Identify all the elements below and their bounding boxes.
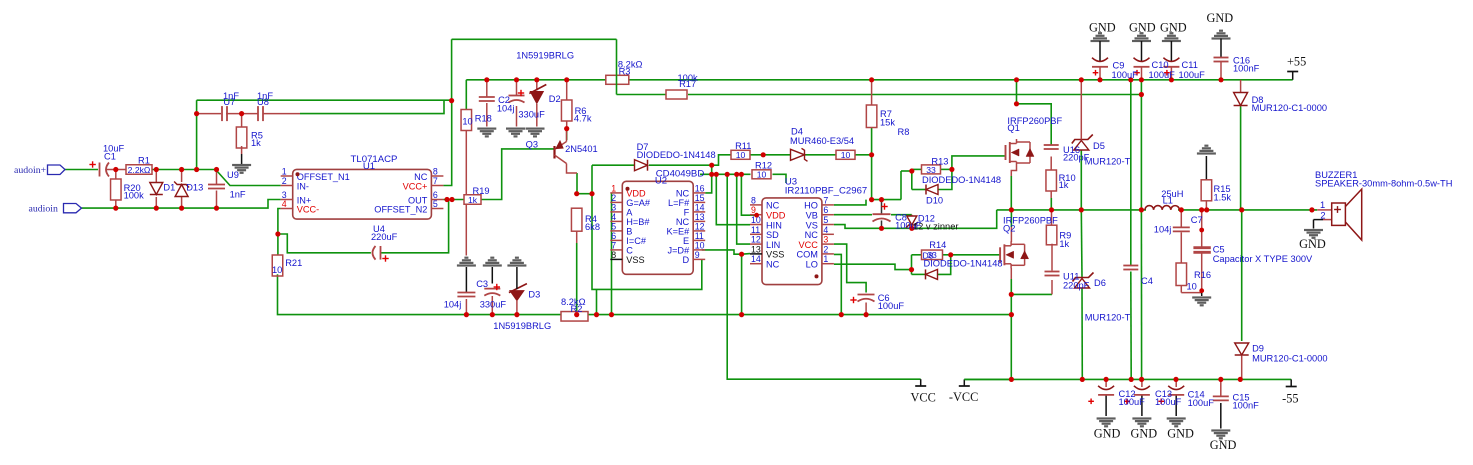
svg-text:C11: C11	[1182, 60, 1198, 70]
svg-text:LO: LO	[806, 260, 818, 270]
svg-text:3: 3	[611, 202, 616, 212]
svg-text:R3: R3	[619, 67, 631, 77]
svg-text:330uF: 330uF	[518, 109, 545, 119]
svg-text:220uF: 220uF	[371, 232, 398, 242]
svg-text:2.2kΩ: 2.2kΩ	[128, 165, 151, 175]
svg-text:VCC: VCC	[911, 391, 936, 405]
svg-text:D6: D6	[1094, 278, 1106, 288]
svg-text:VCC+: VCC+	[403, 181, 428, 191]
svg-text:GND: GND	[1129, 21, 1156, 35]
svg-text:1N5919BRLG: 1N5919BRLG	[493, 321, 551, 331]
svg-text:NC: NC	[805, 230, 819, 240]
svg-text:104j: 104j	[444, 300, 462, 310]
svg-text:IR2110PBF_C2967: IR2110PBF_C2967	[785, 186, 868, 197]
svg-text:15: 15	[695, 193, 705, 203]
svg-text:J=D#: J=D#	[667, 246, 690, 256]
svg-text:13: 13	[695, 212, 705, 222]
svg-text:4.7k: 4.7k	[574, 113, 592, 123]
svg-text:VSS: VSS	[766, 250, 784, 260]
svg-text:F: F	[684, 208, 690, 218]
svg-text:R2: R2	[571, 304, 583, 314]
svg-text:14: 14	[695, 202, 705, 212]
svg-text:C10: C10	[1152, 60, 1169, 70]
svg-text:2: 2	[282, 176, 287, 186]
svg-text:DIODEDO-1N4148: DIODEDO-1N4148	[637, 150, 716, 160]
svg-text:D13: D13	[186, 183, 203, 193]
svg-text:1k: 1k	[1059, 239, 1069, 249]
svg-text:10: 10	[462, 117, 472, 127]
svg-text:D: D	[683, 255, 690, 265]
svg-text:R13: R13	[931, 156, 948, 166]
svg-text:R19: R19	[473, 186, 490, 196]
svg-text:U8: U8	[257, 97, 269, 107]
svg-text:MUR120-C1-0000: MUR120-C1-0000	[1252, 103, 1327, 113]
svg-text:8: 8	[433, 167, 438, 177]
svg-text:104j: 104j	[497, 103, 515, 113]
svg-text:11: 11	[751, 225, 760, 235]
svg-text:8: 8	[611, 250, 616, 260]
svg-text:audoin+: audoin+	[14, 165, 47, 176]
svg-text:NC: NC	[766, 260, 780, 270]
svg-text:16: 16	[695, 183, 705, 193]
svg-text:D3: D3	[528, 290, 540, 300]
svg-text:MUR120-T: MUR120-T	[1085, 156, 1131, 166]
svg-text:100uF: 100uF	[1149, 70, 1176, 80]
svg-text:C5: C5	[1213, 245, 1225, 255]
svg-text:HO: HO	[804, 201, 818, 211]
svg-text:100uF: 100uF	[878, 301, 905, 311]
svg-text:1.5k: 1.5k	[1214, 193, 1232, 203]
svg-text:D1: D1	[163, 183, 175, 193]
svg-text:15k: 15k	[880, 118, 895, 128]
svg-text:12: 12	[751, 235, 761, 245]
svg-text:1k: 1k	[468, 195, 478, 205]
svg-text:G=A#: G=A#	[626, 198, 651, 208]
svg-text:DIODEDO-1N4148: DIODEDO-1N4148	[922, 175, 1001, 185]
svg-text:R12: R12	[755, 161, 772, 171]
svg-text:GND: GND	[1167, 427, 1194, 441]
svg-text:1k: 1k	[251, 138, 261, 148]
svg-text:A: A	[626, 208, 633, 218]
svg-text:R16: R16	[1194, 270, 1211, 280]
svg-text:7: 7	[611, 240, 616, 250]
svg-text:C9: C9	[1113, 61, 1125, 71]
svg-text:100uF: 100uF	[1155, 397, 1182, 407]
svg-text:-55: -55	[1282, 392, 1298, 406]
svg-text:MUR120-T: MUR120-T	[1085, 313, 1131, 323]
svg-text:100uF: 100uF	[1119, 397, 1146, 407]
svg-text:100uF: 100uF	[1188, 398, 1215, 408]
svg-text:Q3: Q3	[526, 140, 538, 150]
svg-text:2: 2	[823, 244, 828, 254]
svg-text:NC: NC	[676, 189, 690, 199]
svg-text:MUR460-E3/54: MUR460-E3/54	[790, 136, 854, 146]
svg-text:1: 1	[823, 254, 828, 264]
svg-text:4: 4	[823, 225, 828, 235]
svg-text:HIN: HIN	[766, 220, 782, 230]
svg-text:U2: U2	[655, 176, 667, 187]
svg-text:Capacitor X TYPE 300V: Capacitor X TYPE 300V	[1213, 254, 1313, 264]
svg-text:R18: R18	[475, 114, 492, 124]
svg-text:C3: C3	[476, 279, 488, 289]
svg-text:H=B#: H=B#	[626, 217, 650, 227]
svg-text:C4: C4	[1141, 276, 1153, 286]
svg-text:R21: R21	[285, 258, 302, 268]
svg-text:6: 6	[611, 231, 616, 241]
svg-text:E: E	[683, 236, 689, 246]
svg-text:1: 1	[1320, 200, 1325, 210]
svg-text:DIODEDO-1N4148: DIODEDO-1N4148	[924, 259, 1003, 269]
svg-text:2: 2	[611, 193, 616, 203]
svg-text:14: 14	[751, 254, 761, 264]
svg-text:D10: D10	[926, 196, 943, 206]
svg-text:VB: VB	[806, 211, 818, 221]
svg-text:OFFSET_N1: OFFSET_N1	[297, 172, 350, 182]
svg-text:U9: U9	[227, 170, 239, 180]
svg-text:330uF: 330uF	[480, 300, 507, 310]
svg-text:audioin: audioin	[29, 204, 58, 215]
svg-text:R8: R8	[898, 127, 910, 137]
svg-text:VSS: VSS	[626, 255, 644, 265]
svg-text:7: 7	[823, 195, 828, 205]
svg-text:2N5401: 2N5401	[565, 144, 598, 154]
svg-text:U7: U7	[223, 97, 235, 107]
svg-text:B: B	[626, 227, 632, 237]
svg-text:5: 5	[433, 199, 438, 209]
svg-text:OFFSET_N2: OFFSET_N2	[374, 204, 427, 214]
svg-text:10: 10	[272, 265, 282, 275]
svg-text:1: 1	[611, 183, 616, 193]
svg-text:GND: GND	[1089, 21, 1116, 35]
svg-text:R17: R17	[679, 79, 696, 89]
svg-text:1N5919BRLG: 1N5919BRLG	[516, 51, 574, 61]
svg-text:NC: NC	[766, 201, 780, 211]
svg-text:6: 6	[823, 205, 828, 215]
svg-text:5: 5	[611, 221, 616, 231]
svg-text:NC: NC	[414, 172, 428, 182]
svg-text:10: 10	[736, 150, 746, 160]
svg-text:11: 11	[695, 231, 704, 241]
svg-text:4: 4	[282, 199, 287, 209]
svg-text:I=C#: I=C#	[626, 236, 647, 246]
svg-text:GND: GND	[1160, 21, 1187, 35]
svg-text:9: 9	[695, 250, 700, 260]
svg-text:13: 13	[751, 244, 761, 254]
svg-text:12: 12	[695, 221, 705, 231]
svg-text:D9: D9	[1252, 344, 1264, 354]
svg-text:7: 7	[433, 176, 438, 186]
svg-text:MUR120-C1-0000: MUR120-C1-0000	[1252, 353, 1327, 363]
svg-text:5: 5	[823, 215, 828, 225]
svg-text:100k: 100k	[124, 191, 145, 201]
svg-text:C7: C7	[1191, 215, 1203, 225]
svg-text:10: 10	[1187, 282, 1197, 292]
svg-text:GND: GND	[1094, 427, 1121, 441]
svg-text:NC: NC	[676, 217, 690, 227]
svg-text:D5: D5	[1093, 141, 1105, 151]
svg-text:Q2: Q2	[1003, 224, 1015, 234]
svg-text:1: 1	[282, 167, 287, 177]
svg-text:VS: VS	[806, 220, 818, 230]
svg-text:8: 8	[751, 195, 756, 205]
svg-text:COM: COM	[796, 250, 817, 260]
svg-text:100nF: 100nF	[1233, 64, 1260, 74]
svg-text:VDD: VDD	[766, 211, 786, 221]
svg-text:GND: GND	[1299, 237, 1326, 251]
svg-text:1k: 1k	[1059, 180, 1069, 190]
svg-text:D4: D4	[791, 127, 803, 137]
svg-text:L1: L1	[1163, 196, 1173, 206]
svg-text:SPEAKER-30mm-8ohm-0.5w-TH: SPEAKER-30mm-8ohm-0.5w-TH	[1315, 179, 1452, 189]
svg-text:10: 10	[841, 150, 851, 160]
svg-text:100nF: 100nF	[1233, 401, 1260, 411]
svg-text:GND: GND	[1131, 427, 1158, 441]
svg-text:+55: +55	[1287, 55, 1306, 69]
svg-text:6k8: 6k8	[585, 222, 600, 232]
svg-text:12 v zinner: 12 v zinner	[913, 221, 958, 231]
svg-text:10: 10	[757, 170, 767, 180]
svg-text:GND: GND	[1210, 438, 1237, 452]
svg-text:D2: D2	[549, 94, 561, 104]
svg-text:-VCC: -VCC	[949, 390, 978, 404]
svg-text:VCC-: VCC-	[297, 204, 319, 214]
svg-text:220pF: 220pF	[1063, 280, 1090, 290]
svg-text:3: 3	[823, 235, 828, 245]
svg-text:VCC: VCC	[798, 240, 818, 250]
svg-text:104j: 104j	[1154, 225, 1172, 235]
svg-text:R14: R14	[929, 240, 946, 250]
svg-text:U1: U1	[363, 161, 375, 172]
svg-text:K=E#: K=E#	[666, 227, 690, 237]
svg-text:R1: R1	[138, 156, 150, 166]
svg-text:100uF: 100uF	[1112, 70, 1139, 80]
svg-text:GND: GND	[1207, 11, 1234, 25]
svg-text:1nF: 1nF	[230, 190, 246, 200]
svg-text:L=F#: L=F#	[668, 198, 690, 208]
svg-text:Q1: Q1	[1007, 123, 1019, 133]
svg-text:VDD: VDD	[626, 189, 646, 199]
svg-text:SD: SD	[766, 230, 779, 240]
svg-text:4: 4	[611, 212, 616, 222]
svg-text:C1: C1	[104, 152, 116, 162]
svg-text:LIN: LIN	[766, 240, 780, 250]
svg-text:R11: R11	[735, 141, 751, 151]
svg-text:10: 10	[695, 240, 705, 250]
svg-text:100uF: 100uF	[1179, 70, 1206, 80]
svg-text:C: C	[626, 246, 633, 256]
svg-text:IN-: IN-	[297, 181, 309, 191]
svg-text:2: 2	[1320, 210, 1325, 220]
